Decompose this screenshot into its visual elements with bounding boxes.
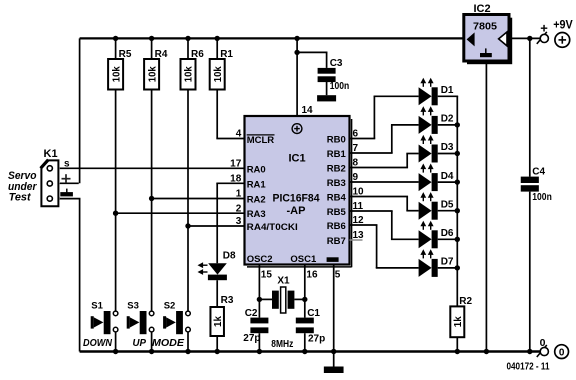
svg-text:C3: C3 <box>330 58 343 69</box>
svg-text:MODE: MODE <box>152 338 184 349</box>
svg-text:RB1: RB1 <box>327 149 347 160</box>
svg-text:S2: S2 <box>164 301 176 312</box>
svg-text:RB5: RB5 <box>327 207 347 218</box>
svg-text:OSC1: OSC1 <box>290 254 317 265</box>
svg-text:1k: 1k <box>212 316 224 327</box>
svg-text:100n: 100n <box>330 81 350 92</box>
svg-text:14: 14 <box>302 105 314 116</box>
svg-text:C2: C2 <box>245 308 258 319</box>
svg-text:C4: C4 <box>532 167 545 178</box>
svg-text:RB3: RB3 <box>327 178 346 189</box>
svg-text:RA0: RA0 <box>247 164 266 175</box>
svg-text:3: 3 <box>236 216 242 227</box>
svg-text:10k: 10k <box>146 66 158 82</box>
svg-text:Test: Test <box>9 192 32 204</box>
svg-text:D5: D5 <box>441 199 454 210</box>
svg-text:10k: 10k <box>212 66 224 82</box>
svg-text:RA2: RA2 <box>247 195 266 206</box>
svg-text:S3: S3 <box>127 301 139 312</box>
svg-text:RB7: RB7 <box>327 236 346 247</box>
svg-text:RA3: RA3 <box>247 209 266 220</box>
svg-text:17: 17 <box>230 159 242 170</box>
svg-text:IC1: IC1 <box>288 152 305 164</box>
svg-text:MCLR: MCLR <box>247 135 275 146</box>
svg-text:RB0: RB0 <box>327 135 346 146</box>
svg-text:4: 4 <box>236 129 242 140</box>
svg-text:RA1: RA1 <box>247 179 267 190</box>
svg-text:D7: D7 <box>441 257 454 268</box>
svg-text:R3: R3 <box>221 295 234 306</box>
svg-text:D4: D4 <box>441 171 454 182</box>
svg-text:7805: 7805 <box>473 21 497 33</box>
svg-text:100n: 100n <box>532 192 552 203</box>
svg-text:RA4/T0CKI: RA4/T0CKI <box>247 222 298 233</box>
svg-text:2: 2 <box>236 203 242 214</box>
svg-text:27p: 27p <box>308 334 325 345</box>
svg-text:DOWN: DOWN <box>83 338 113 349</box>
svg-text:R1: R1 <box>220 49 233 60</box>
svg-text:OSC2: OSC2 <box>247 254 273 265</box>
svg-text:S1: S1 <box>91 301 103 312</box>
svg-text:+9V: +9V <box>553 18 573 32</box>
svg-text:R5: R5 <box>119 49 132 60</box>
svg-text:PIC16F84: PIC16F84 <box>273 193 321 205</box>
svg-text:R4: R4 <box>155 49 168 60</box>
svg-text:X1: X1 <box>277 276 290 287</box>
svg-text:D8: D8 <box>223 250 236 261</box>
svg-text:RB2: RB2 <box>327 164 346 175</box>
svg-text:R2: R2 <box>459 296 472 307</box>
svg-text:D6: D6 <box>441 228 454 239</box>
svg-text:UP: UP <box>133 338 147 349</box>
svg-text:IC2: IC2 <box>473 3 490 15</box>
svg-text:27p: 27p <box>243 333 260 344</box>
svg-text:D3: D3 <box>441 142 454 153</box>
svg-text:8MHz: 8MHz <box>271 339 293 350</box>
svg-text:1: 1 <box>236 189 242 200</box>
svg-text:D2: D2 <box>441 114 454 125</box>
svg-text:RB6: RB6 <box>327 221 346 232</box>
svg-text:0: 0 <box>559 347 565 358</box>
svg-text:K1: K1 <box>44 148 58 160</box>
svg-text:18: 18 <box>230 174 242 185</box>
svg-text:s: s <box>64 159 70 170</box>
svg-text:-AP: -AP <box>287 205 306 217</box>
svg-text:RB4: RB4 <box>327 193 347 204</box>
svg-text:D1: D1 <box>441 85 454 96</box>
svg-text:1k: 1k <box>452 316 464 327</box>
svg-text:C1: C1 <box>307 308 320 319</box>
svg-text:0: 0 <box>540 337 546 349</box>
svg-text:R6: R6 <box>191 49 204 60</box>
svg-text:10k: 10k <box>110 66 122 82</box>
svg-text:16: 16 <box>306 270 318 281</box>
svg-text:5: 5 <box>335 270 341 281</box>
svg-text:10k: 10k <box>183 66 195 82</box>
svg-text:15: 15 <box>261 270 273 281</box>
svg-text:040172 - 11: 040172 - 11 <box>507 362 550 373</box>
svg-text:+: + <box>540 21 548 36</box>
